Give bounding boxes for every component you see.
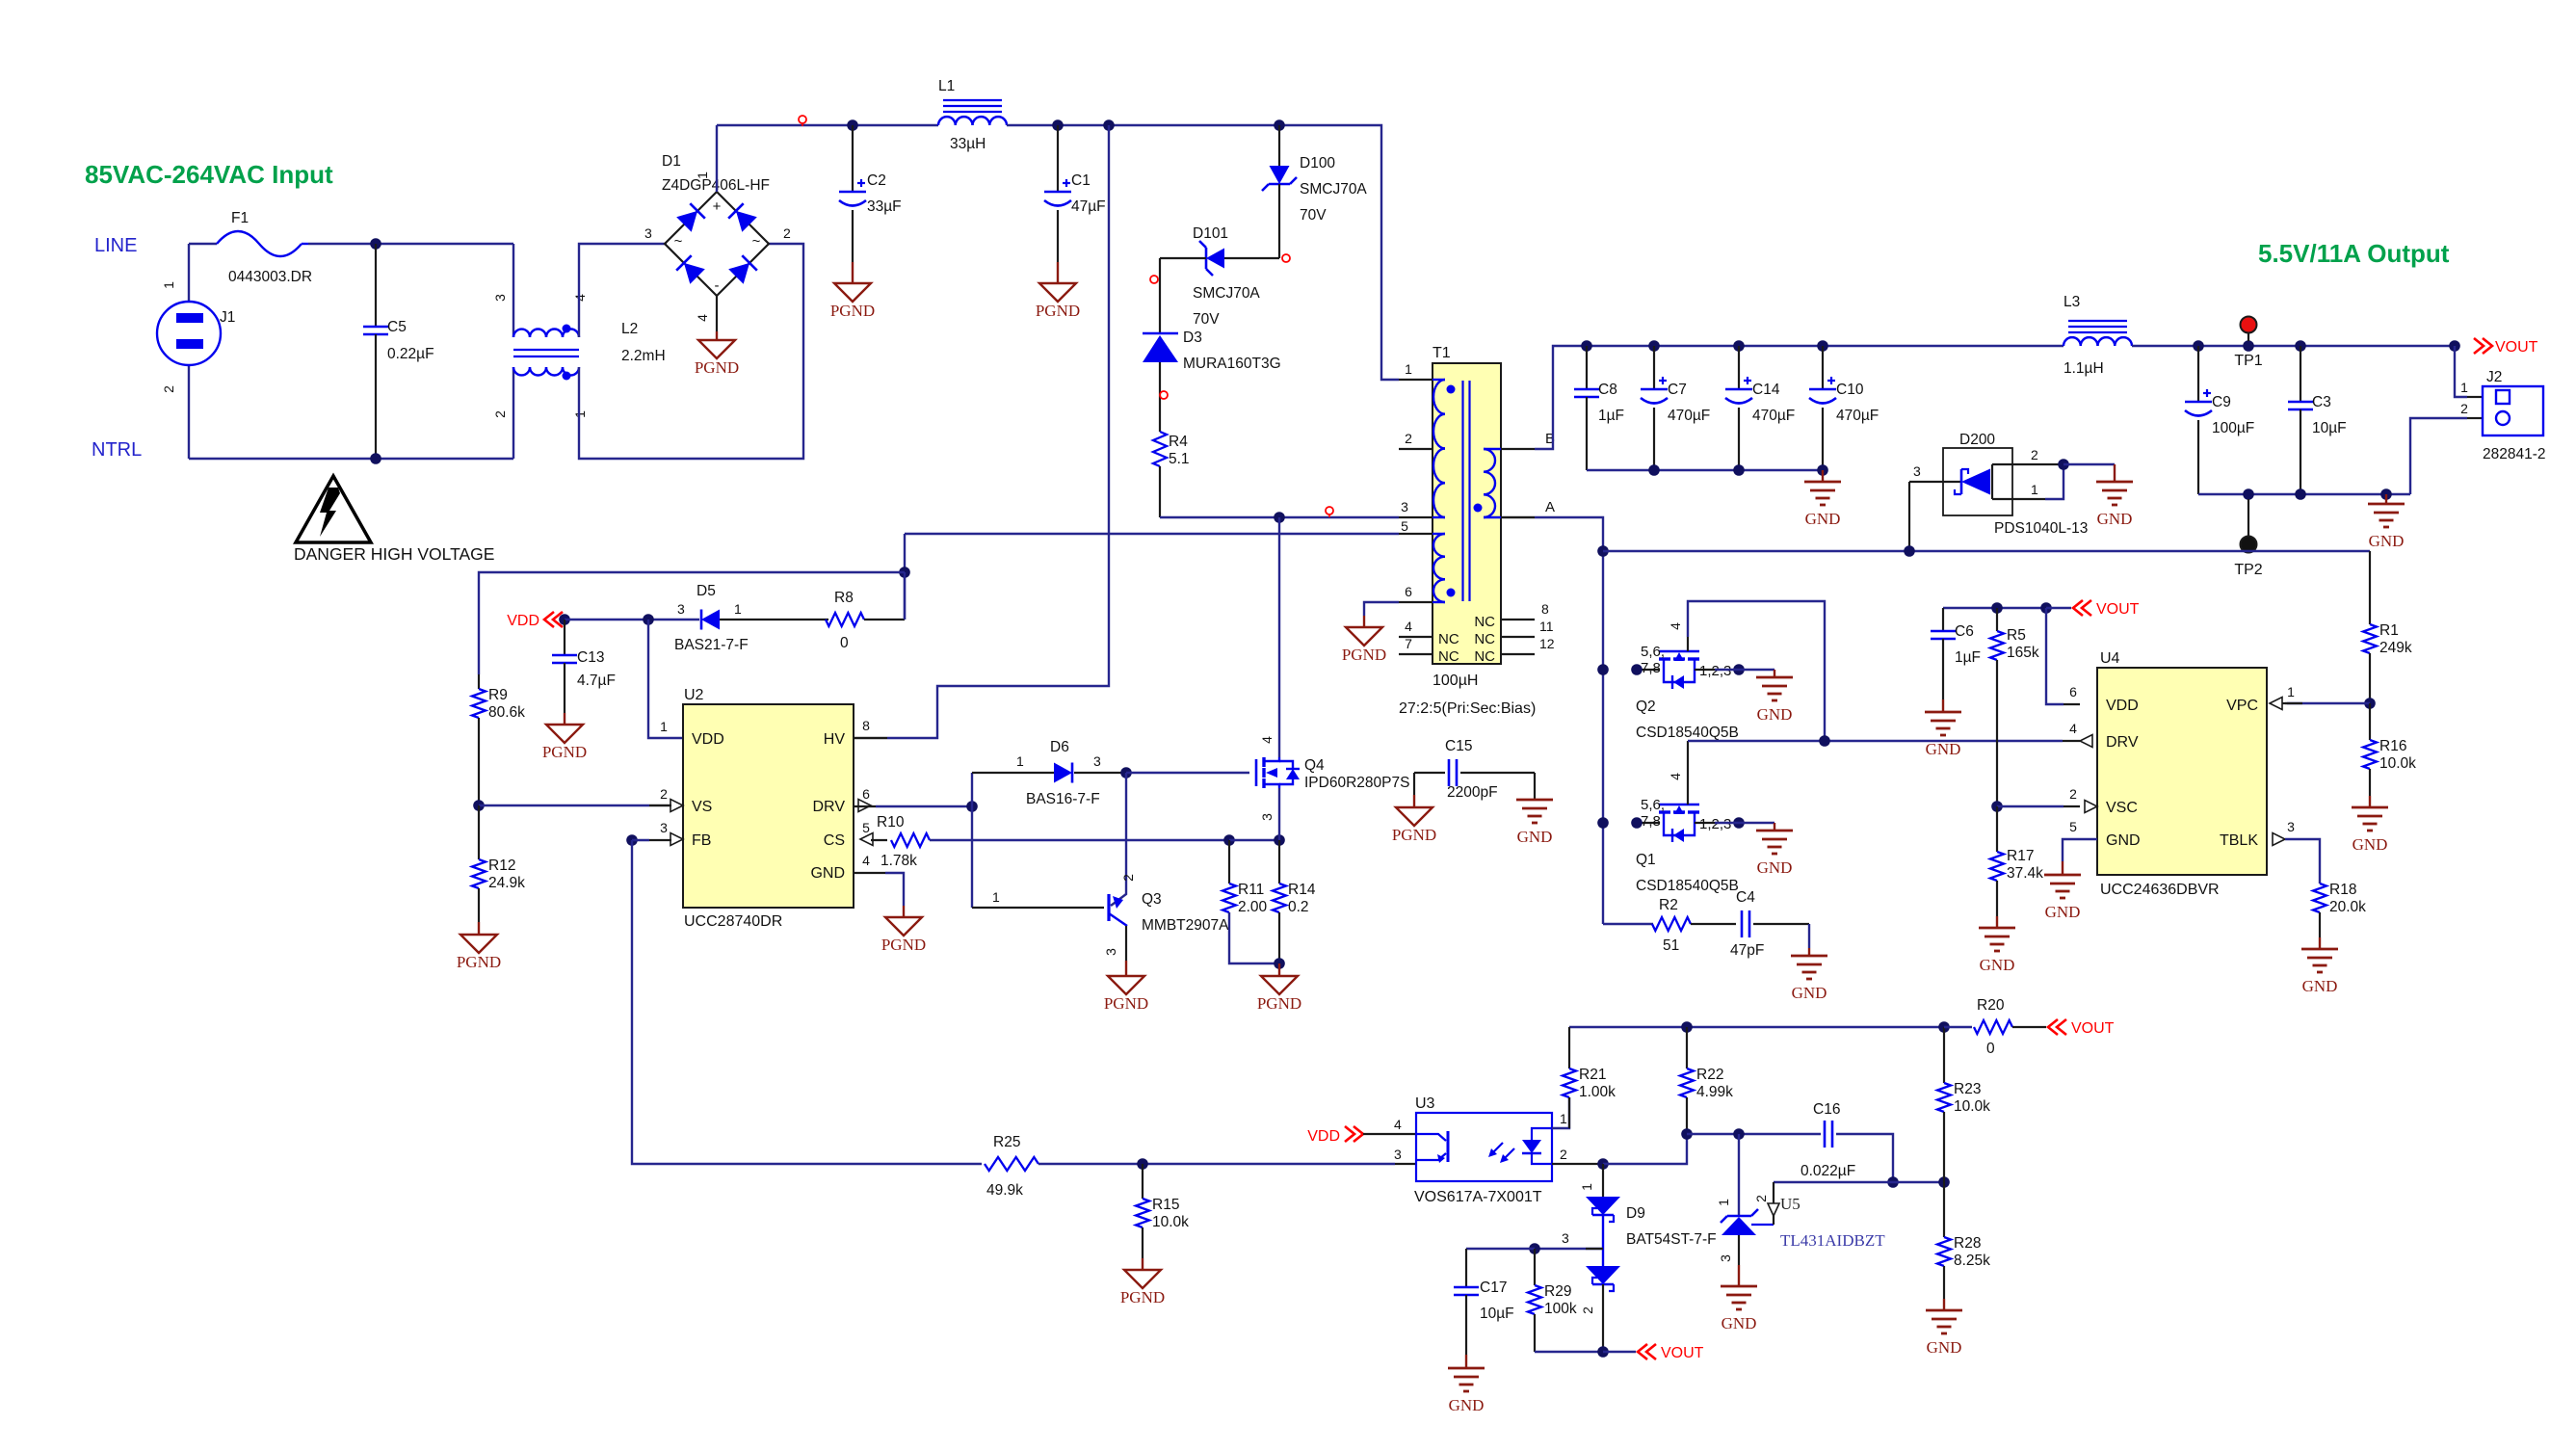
node DRV gate riser	[1819, 735, 1830, 747]
svg-text:R25: R25	[993, 1134, 1020, 1150]
svg-text:GND: GND	[2302, 977, 2338, 995]
node VPC	[2364, 698, 2376, 709]
svg-text:BAS21-7-F: BAS21-7-F	[674, 637, 749, 653]
svg-text:R5: R5	[2007, 627, 2026, 644]
node C8 top	[1581, 340, 1592, 352]
svg-text:R9: R9	[488, 687, 508, 703]
svg-text:Q1: Q1	[1636, 852, 1656, 868]
svg-text:49.9k: 49.9k	[986, 1182, 1023, 1199]
no-ERC marker (pin3 net)	[1326, 507, 1333, 514]
svg-text:IPD60R280P7S: IPD60R280P7S	[1304, 775, 1409, 791]
svg-text:85VAC-264VAC Input: 85VAC-264VAC Input	[85, 160, 333, 189]
node TP1	[2243, 340, 2254, 352]
svg-text:2: 2	[1405, 431, 1412, 446]
ground PGND (C2)	[834, 283, 871, 302]
svg-text:2: 2	[1560, 1147, 1567, 1162]
svg-text:1: 1	[992, 889, 1000, 905]
capacitor C9	[2197, 346, 2199, 402]
transformer T1	[1433, 363, 1501, 664]
svg-text:282841-2: 282841-2	[2483, 446, 2546, 462]
svg-text:D1: D1	[662, 153, 681, 170]
wire to PGND (R14)	[1278, 963, 1280, 976]
node GND tap (output)	[2380, 488, 2392, 500]
svg-text:LINE: LINE	[94, 235, 137, 256]
node C16/REF	[1887, 1176, 1899, 1188]
svg-text:A: A	[1545, 499, 1555, 515]
svg-text:3: 3	[1913, 463, 1921, 479]
svg-text:C8: C8	[1598, 382, 1617, 398]
diode D9 BAT54ST-7-F	[1602, 1164, 1604, 1197]
resistor R18	[2313, 884, 2326, 912]
resistor R4	[1153, 432, 1167, 466]
svg-text:R18: R18	[2329, 882, 2356, 898]
pin U2 CS stub	[871, 839, 887, 841]
svg-text:PGND: PGND	[830, 302, 875, 320]
node VDD	[559, 614, 570, 625]
pin U2 FB wire	[632, 839, 649, 841]
pin U2 GND wire	[854, 872, 885, 874]
svg-text:C15: C15	[1445, 738, 1472, 754]
node Q1 drain stub	[1631, 817, 1643, 829]
svg-text:GND: GND	[2045, 903, 2081, 921]
svg-text:0443003.DR: 0443003.DR	[228, 269, 312, 285]
node Q1 drain	[1597, 817, 1609, 829]
wire D200 pin3 riser	[1908, 482, 1910, 551]
svg-text:GND: GND	[1757, 705, 1793, 724]
transistor Q1 CSD18540Q5B	[1637, 822, 1659, 824]
capacitor C17	[1466, 1248, 1535, 1250]
svg-text:VOUT: VOUT	[2071, 1020, 2115, 1037]
svg-text:GND: GND	[1792, 984, 1827, 1002]
transistor Q3 MMBT2907A	[972, 907, 1104, 909]
svg-text:PGND: PGND	[1342, 646, 1386, 664]
resistor R8	[826, 613, 864, 626]
ground GND (U5)	[1721, 1285, 1757, 1288]
svg-text:1µF: 1µF	[1955, 649, 1981, 666]
svg-text:VOUT: VOUT	[1661, 1345, 1704, 1361]
svg-text:10µF: 10µF	[1480, 1306, 1514, 1322]
wire U3 pin2 net	[1552, 1163, 1603, 1165]
svg-text:1: 1	[734, 601, 742, 617]
svg-text:PDS1040L-13: PDS1040L-13	[1994, 520, 2088, 537]
ground PGND (R12)	[460, 935, 497, 953]
node C14 top	[1733, 340, 1745, 352]
svg-text:1: 1	[1560, 1111, 1567, 1126]
capacitor C1	[1057, 125, 1059, 192]
svg-text:J2: J2	[2486, 369, 2502, 385]
wire VSC	[1997, 805, 2063, 807]
ground PGND (C15)	[1396, 807, 1433, 826]
svg-text:0.022µF: 0.022µF	[1801, 1163, 1855, 1179]
svg-text:VDD: VDD	[507, 613, 539, 629]
svg-text:8: 8	[862, 718, 870, 733]
wire LINE to F1	[189, 243, 217, 245]
svg-text:3: 3	[1394, 1147, 1402, 1162]
svg-text:3: 3	[660, 820, 668, 835]
svg-text:100k: 100k	[1544, 1301, 1577, 1317]
svg-text:TP1: TP1	[2234, 353, 2262, 369]
svg-text:VDD: VDD	[692, 731, 724, 748]
svg-text:PGND: PGND	[1257, 994, 1301, 1013]
svg-text:C9: C9	[2212, 394, 2231, 410]
svg-text:NC: NC	[1474, 614, 1495, 630]
bridge rectifier D1	[665, 192, 769, 296]
svg-text:R22: R22	[1696, 1067, 1723, 1083]
resistor R14	[1278, 840, 1280, 884]
wire R8 to bias winding	[904, 572, 906, 620]
svg-text:R4: R4	[1169, 434, 1188, 450]
wire VS to U2	[479, 805, 649, 806]
svg-text:VS: VS	[692, 799, 712, 815]
svg-text:VOUT: VOUT	[2096, 601, 2140, 618]
svg-text:UCC24636DBVR: UCC24636DBVR	[2100, 882, 2220, 898]
svg-text:D6: D6	[1050, 739, 1069, 755]
svg-text:7,8: 7,8	[1641, 660, 1661, 676]
wire FB riser	[632, 840, 982, 1164]
svg-text:C3: C3	[2312, 394, 2331, 410]
svg-text:4: 4	[1259, 736, 1275, 744]
svg-text:VOUT: VOUT	[2495, 339, 2538, 356]
svg-text:MMBT2907A: MMBT2907A	[1142, 917, 1229, 934]
svg-text:NTRL: NTRL	[92, 439, 142, 461]
wire Q1 source to GND	[1715, 822, 1774, 824]
svg-text:U4: U4	[2100, 650, 2120, 667]
node Q2 source	[1733, 664, 1745, 675]
ground GND (D200)	[2096, 481, 2133, 484]
svg-text:8: 8	[1541, 601, 1549, 617]
node C10 bottom	[1817, 464, 1828, 476]
svg-text:1µF: 1µF	[1598, 408, 1624, 424]
svg-text:R20: R20	[1977, 997, 2005, 1014]
svg-text:47µF: 47µF	[1071, 198, 1106, 215]
svg-text:4.99k: 4.99k	[1696, 1084, 1733, 1100]
wire U3 pin1	[1552, 1097, 1569, 1128]
wire L1 to T1 pin1	[1007, 125, 1399, 380]
svg-text:L1: L1	[938, 78, 955, 94]
optocoupler U3 VOS617A-7X001T	[1363, 1133, 1416, 1135]
svg-text:5: 5	[1401, 518, 1408, 534]
resistor R2	[1603, 923, 1653, 925]
svg-text:R17: R17	[2007, 848, 2034, 864]
svg-text:70V: 70V	[1300, 207, 1327, 224]
node VS divider	[473, 800, 485, 811]
node Q1 source	[1733, 817, 1745, 829]
wire gate to Q4	[1126, 772, 1249, 774]
svg-text:37.4k: 37.4k	[2007, 865, 2043, 882]
svg-text:10µF: 10µF	[2312, 420, 2347, 436]
svg-text:C17: C17	[1480, 1280, 1507, 1296]
node VOUT corner	[2449, 340, 2460, 352]
svg-text:51: 51	[1663, 937, 1679, 954]
svg-text:NC: NC	[1474, 648, 1495, 665]
wire Q3 collector	[1111, 773, 1126, 906]
svg-text:1: 1	[2031, 482, 2038, 497]
inductor L1	[938, 117, 956, 125]
svg-text:PGND: PGND	[457, 953, 501, 971]
svg-text:1: 1	[2287, 684, 2295, 699]
node C14 bottom	[1733, 464, 1745, 476]
wire REF line	[1774, 1181, 1944, 1183]
wire C10 bus to GND	[1822, 470, 1824, 482]
svg-text:4: 4	[862, 853, 870, 868]
net label VOUT (output)	[2483, 338, 2492, 354]
svg-text:1,2,3: 1,2,3	[1699, 816, 1731, 832]
wire F1 to C5/L2	[308, 243, 513, 245]
svg-text:2: 2	[1120, 874, 1136, 882]
svg-text:PGND: PGND	[1036, 302, 1080, 320]
svg-text:0: 0	[840, 635, 849, 651]
svg-text:5,6,: 5,6,	[1641, 797, 1665, 813]
pin U4 VPC stub	[2285, 702, 2302, 704]
svg-text:1: 1	[1579, 1183, 1594, 1191]
svg-text:2: 2	[1580, 1306, 1595, 1314]
svg-text:33µH: 33µH	[950, 136, 986, 152]
capacitor C8	[1586, 346, 1588, 389]
svg-text:2: 2	[660, 786, 668, 802]
wire D9 pin3	[1535, 1248, 1603, 1250]
net label VOUT (R20)	[2048, 1019, 2058, 1035]
diode D200	[1943, 448, 2012, 515]
node C2 top	[847, 119, 858, 131]
wire C16 line	[1687, 1133, 1821, 1135]
node R11/R14 bottom	[1274, 958, 1285, 969]
wire gate-drive vertical	[971, 773, 973, 908]
connector J2	[2455, 346, 2467, 397]
node R14 top	[1274, 834, 1285, 846]
svg-text:GND: GND	[1980, 956, 2015, 974]
node D200 tap	[1904, 545, 1915, 557]
wire VS horizontal	[479, 572, 905, 674]
pin U4 TBLK wire	[2285, 839, 2320, 884]
wire D101 to D3	[1159, 258, 1161, 333]
svg-text:2200pF: 2200pF	[1447, 784, 1498, 801]
svg-text:80.6k: 80.6k	[488, 704, 525, 721]
svg-text:SMCJ70A: SMCJ70A	[1193, 285, 1260, 302]
resistor R17	[1996, 806, 1998, 852]
svg-text:GND: GND	[1517, 828, 1553, 846]
svg-text:MURA160T3G: MURA160T3G	[1183, 356, 1281, 372]
svg-text:PGND: PGND	[542, 743, 587, 761]
wire R29 to VOUT	[1535, 1351, 1603, 1353]
net label VOUT (U4)	[2073, 600, 2083, 616]
svg-text:C4: C4	[1736, 889, 1755, 906]
wire NTRL bottom bus	[189, 458, 513, 460]
svg-text:3: 3	[644, 225, 652, 241]
wire U4 VDD	[2046, 608, 2063, 704]
svg-text:VDD: VDD	[1307, 1128, 1340, 1145]
resistor R23	[1943, 1027, 1945, 1083]
svg-text:HV: HV	[824, 731, 846, 748]
svg-text:5.5V/11A Output: 5.5V/11A Output	[2258, 239, 2450, 268]
resistor R29	[1534, 1249, 1536, 1285]
svg-text:6: 6	[1405, 584, 1412, 599]
node D9 top	[1597, 1158, 1609, 1170]
capacitor C14	[1738, 346, 1740, 389]
svg-text:20.0k: 20.0k	[2329, 899, 2366, 915]
svg-text:R21: R21	[1579, 1067, 1606, 1083]
svg-text:4: 4	[1668, 773, 1683, 780]
svg-text:3: 3	[492, 294, 508, 302]
node Q4 gate	[1120, 767, 1132, 778]
svg-text:3: 3	[1093, 753, 1101, 769]
capacitor C7	[1653, 346, 1655, 389]
svg-text:VPC: VPC	[2226, 698, 2258, 714]
capacitor C3	[2300, 346, 2301, 402]
wire fb top bus	[1569, 1026, 1944, 1028]
node R11 top	[1223, 834, 1235, 846]
svg-text:0.22µF: 0.22µF	[387, 346, 434, 362]
node C3 bottom	[2295, 488, 2306, 500]
svg-text:3: 3	[1259, 813, 1275, 821]
svg-text:F1: F1	[231, 210, 249, 226]
wire DRV line	[1688, 740, 2063, 742]
svg-text:GND: GND	[2097, 510, 2133, 528]
svg-text:C14: C14	[1752, 382, 1780, 398]
svg-text:5: 5	[2069, 819, 2077, 834]
resistor R20	[1944, 1026, 1972, 1028]
svg-text:PGND: PGND	[1104, 994, 1148, 1013]
inductor L2 (common-mode choke)	[513, 330, 530, 337]
wire A-net bus	[1603, 550, 2370, 552]
svg-text:C5: C5	[387, 319, 407, 335]
wire L2 pin1 riser	[579, 244, 803, 459]
svg-text:GND: GND	[1449, 1396, 1485, 1414]
resistor R9	[478, 674, 480, 689]
node R23 bottom	[1938, 1176, 1950, 1188]
ground GND (output)	[2368, 503, 2405, 506]
svg-text:2: 2	[161, 385, 176, 393]
node D100 top	[1274, 119, 1285, 131]
svg-text:BAS16-7-F: BAS16-7-F	[1026, 791, 1100, 807]
svg-text:R15: R15	[1152, 1197, 1179, 1213]
wire D6 anode	[972, 772, 1054, 774]
wire Q2 source to GND	[1715, 669, 1774, 671]
svg-text:100µH: 100µH	[1433, 673, 1478, 689]
transistor Q2 CSD18540Q5B	[1637, 669, 1659, 671]
wire output ground bus	[2198, 493, 2410, 495]
pin U2 DRV wire	[854, 805, 876, 807]
svg-text:470µF: 470µF	[1836, 408, 1879, 424]
danger high voltage symbol	[296, 476, 371, 542]
svg-text:1: 1	[161, 281, 176, 289]
svg-text:1: 1	[1016, 753, 1024, 769]
svg-text:1: 1	[1716, 1199, 1731, 1206]
svg-text:T1: T1	[1433, 345, 1451, 361]
svg-text:~: ~	[752, 233, 761, 250]
wire VS riser	[904, 534, 906, 620]
svg-text:2.00: 2.00	[1238, 899, 1268, 915]
svg-text:Q3: Q3	[1142, 891, 1162, 908]
wire bridge pin4 to PGND	[716, 296, 718, 331]
svg-text:VOS617A-7X001T: VOS617A-7X001T	[1414, 1189, 1542, 1205]
svg-text:GND: GND	[1926, 740, 1961, 758]
svg-text:5,6,: 5,6,	[1641, 644, 1665, 660]
svg-text:R10: R10	[877, 814, 905, 831]
svg-text:R28: R28	[1954, 1235, 1981, 1252]
wire VOUT stub	[2046, 607, 2071, 609]
ground GND (Q1)	[1756, 830, 1793, 832]
svg-text:L3: L3	[2063, 294, 2080, 310]
resistor R22	[1686, 1027, 1688, 1068]
svg-text:7: 7	[1405, 636, 1412, 651]
svg-text:R1: R1	[2379, 622, 2399, 639]
IC U2 UCC28740DR	[683, 704, 854, 908]
node R15 top	[1137, 1158, 1148, 1170]
node VSC	[1991, 801, 2003, 812]
ground GND (C6)	[1925, 711, 1961, 714]
wire L2 pin4 riser	[579, 244, 667, 337]
ground PGND (T1)	[1346, 627, 1382, 646]
inductor L3	[2063, 337, 2081, 346]
svg-text:3: 3	[1103, 948, 1118, 956]
ground GND (C4)	[1791, 955, 1827, 958]
ground GND (U4)	[2044, 874, 2081, 877]
svg-text:R16: R16	[2379, 738, 2406, 754]
svg-text:C13: C13	[577, 649, 604, 666]
no-ERC marker (D100/D101)	[1282, 254, 1290, 262]
node C7 bottom	[1648, 464, 1660, 476]
TVS diode D101	[1206, 249, 1224, 269]
wire Q4 drain	[1278, 517, 1280, 757]
svg-text:1: 1	[1405, 361, 1412, 377]
svg-text:12: 12	[1539, 636, 1555, 651]
svg-text:24.9k: 24.9k	[488, 875, 525, 891]
svg-text:6: 6	[2069, 684, 2077, 699]
wire VOUT pickup	[1943, 607, 2046, 609]
svg-text:0.2: 0.2	[1288, 899, 1309, 915]
svg-text:2.2mH: 2.2mH	[621, 348, 666, 364]
svg-text:1: 1	[660, 719, 668, 734]
wire U2 VDD pin riser	[648, 620, 683, 738]
TVS diode D100	[1278, 125, 1280, 166]
ground PGND (U2 GND)	[885, 917, 922, 936]
node Q2 drain	[1597, 664, 1609, 675]
svg-text:VDD: VDD	[2106, 698, 2139, 714]
svg-text:U2: U2	[684, 687, 704, 703]
ground PGND (C1)	[1039, 283, 1076, 302]
resistor R25	[985, 1157, 1038, 1171]
svg-text:J1: J1	[220, 309, 235, 326]
pin U4 GND wire	[2063, 839, 2097, 861]
svg-text:1.00k: 1.00k	[1579, 1084, 1616, 1100]
svg-text:10.0k: 10.0k	[1954, 1098, 1990, 1115]
svg-text:2: 2	[783, 225, 791, 241]
no-ERC marker (top bus)	[799, 116, 806, 123]
shunt regulator U5 TL431AIDBZT	[1738, 1134, 1740, 1216]
svg-text:10.0k: 10.0k	[1152, 1214, 1189, 1230]
svg-text:D5: D5	[697, 583, 716, 599]
resistor R16	[2369, 703, 2371, 740]
wire pin2 to R22	[1603, 1134, 1687, 1164]
svg-text:4: 4	[2069, 721, 2077, 736]
wire D100 to D101	[1224, 257, 1279, 259]
node C5 top	[370, 238, 381, 250]
wire HV riser	[887, 125, 1109, 738]
svg-text:U3: U3	[1415, 1095, 1435, 1112]
no-ERC marker (D3/R4)	[1160, 391, 1168, 399]
ground PGND (C13)	[546, 725, 583, 743]
wire bridge pin1 to top bus	[716, 125, 718, 192]
svg-text:4: 4	[1405, 619, 1412, 634]
node Q4 drain riser	[1274, 512, 1285, 523]
connector J1	[188, 244, 190, 302]
svg-text:1.1µH: 1.1µH	[2063, 360, 2104, 377]
svg-text:GND: GND	[2353, 835, 2388, 854]
svg-text:C2: C2	[867, 172, 886, 189]
svg-text:6: 6	[862, 786, 870, 802]
wire L2 pin2 riser	[513, 367, 514, 459]
wire to GND (output)	[2385, 494, 2387, 504]
